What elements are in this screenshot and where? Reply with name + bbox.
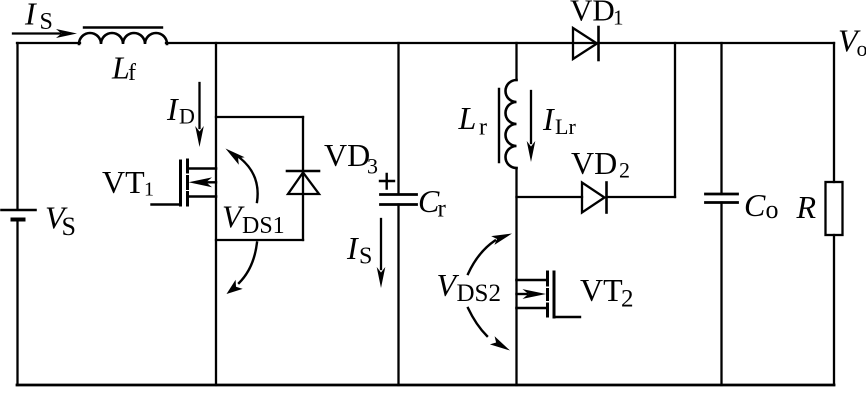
arrow: ILr current direction [527, 91, 536, 162]
svg-text:VD: VD [571, 145, 617, 181]
wire: VD3 loop bottom segment [216, 239, 303, 241]
svg-text:D: D [179, 104, 195, 129]
wire: right rail upper to load [833, 43, 835, 182]
wire: VD2 return to top bus [674, 43, 676, 197]
svg-text:DS2: DS2 [457, 280, 501, 307]
arrow: IS current direction [13, 29, 77, 38]
wire: VT1 drain/source vertical branch [215, 43, 217, 385]
label Lf [111, 49, 136, 86]
svg-text:L: L [111, 49, 130, 85]
diode VD1 triangle [573, 28, 597, 59]
svg-text:2: 2 [619, 158, 630, 183]
transistor VT1 source stub [189, 195, 217, 198]
svg-text:C: C [744, 187, 766, 223]
label IS (resonant-cap current) [346, 230, 372, 270]
arrow: VDS1 upper curved pointer [226, 149, 258, 203]
svg-text:S: S [359, 244, 372, 270]
wire: left rail lower (battery - to bottom bus) [16, 220, 18, 386]
wire: bottom return bus [17, 384, 834, 387]
wire: Co branch lower [720, 203, 722, 386]
arrow: VDS2 upper curved pointer [468, 234, 512, 275]
diode VD3 (antiparallel, conducts upward): cathode bar [287, 170, 319, 173]
label VD2 [571, 145, 630, 183]
label R [796, 189, 817, 225]
core bar of Lr [498, 89, 500, 162]
wire: VD3 loop top segment [216, 116, 303, 118]
arrow: VDS2 lower curved pointer [468, 308, 510, 351]
wire: top bus from source to Vo [17, 42, 834, 44]
svg-text:S: S [40, 9, 53, 35]
arrow: ID current direction [195, 83, 204, 147]
svg-text:o: o [766, 195, 779, 224]
wire: left rail upper (source + to top bus) [16, 43, 18, 209]
svg-text:r: r [479, 115, 487, 141]
transistor VT2 gate lead [554, 316, 580, 318]
svg-text:3: 3 [367, 154, 378, 179]
svg-text:2: 2 [621, 286, 634, 313]
svg-text:S: S [62, 212, 76, 241]
svg-text:VD: VD [570, 0, 615, 28]
transistor VT1 body arrow stub (points left into channel) [189, 177, 217, 187]
transistor VT2 channel segments [546, 272, 549, 316]
wire: right rail lower [833, 235, 835, 385]
wire: Cr branch lower [397, 205, 399, 386]
battery VS [2, 210, 36, 220]
label VDS1 [222, 198, 285, 239]
label Vo (output voltage) [838, 23, 866, 62]
svg-text:VD: VD [324, 137, 370, 173]
svg-text:VT: VT [102, 164, 145, 200]
label Lr [458, 100, 488, 141]
label IS (input current) [24, 0, 53, 35]
svg-text:Lr: Lr [555, 114, 576, 139]
label VD3 [324, 137, 378, 179]
wire: Lr top connection [515, 43, 517, 80]
transistor VT2 source stub [517, 307, 547, 310]
transistor Q VT1 (MOSFET) gate lead [152, 203, 181, 205]
label VT2 [580, 272, 634, 313]
svg-text:L: L [458, 100, 477, 136]
svg-text:f: f [128, 60, 136, 86]
diode VD3 triangle [288, 173, 319, 195]
label VDS2 [437, 267, 501, 307]
wire: VD2 cathode segment [607, 196, 676, 198]
svg-text:1: 1 [613, 6, 624, 30]
svg-text:R: R [796, 189, 817, 225]
core bar of Lf [84, 26, 162, 28]
svg-text:I: I [346, 230, 359, 266]
svg-text:r: r [438, 196, 447, 223]
transistor VT1 gate bar [179, 161, 182, 205]
svg-text:I: I [166, 91, 179, 127]
svg-text:I: I [542, 101, 555, 137]
svg-text:VT: VT [580, 272, 623, 308]
arrow: IS direction at Cr [377, 219, 386, 288]
svg-text:I: I [24, 0, 37, 32]
wire: Co branch upper [720, 43, 722, 194]
inductor Lr (vertical, humps to the left) [506, 80, 517, 168]
capacitor Cr plates [381, 195, 417, 205]
wire: Lr to VT2 / VD2 node vertical [515, 168, 517, 385]
diode VD1 cathode bar [597, 27, 600, 60]
arrow: VDS1 lower curved pointer [227, 243, 258, 295]
svg-text:o: o [857, 36, 866, 61]
label VT1 [102, 164, 154, 201]
svg-text:DS1: DS1 [242, 213, 285, 239]
label Cr [418, 183, 447, 223]
label ID [166, 91, 195, 129]
label VD1 [570, 0, 624, 30]
label VS [45, 199, 76, 241]
transistor VT2 drain stub [517, 279, 547, 282]
transistor VT2 body arrow stub (points right into channel) [517, 289, 547, 299]
resistor R body [826, 182, 843, 235]
wire: Cr branch upper [397, 43, 399, 194]
label ILr [542, 101, 576, 139]
transistor VT1 channel segments [186, 160, 189, 205]
svg-text:1: 1 [144, 179, 154, 201]
diode VD2 triangle [582, 183, 605, 213]
wire: VD2 anode segment [517, 196, 583, 198]
transistor VT1 drain stub [189, 167, 217, 170]
inductor Lf [79, 33, 167, 44]
polarity + of Cr [380, 174, 394, 189]
wire: VD3 branch vertical [302, 117, 304, 240]
label Co [744, 187, 779, 224]
transistor VT2 gate bar [553, 272, 556, 317]
capacitor Co plates [706, 194, 738, 203]
diode VD2 cathode bar [605, 183, 608, 213]
